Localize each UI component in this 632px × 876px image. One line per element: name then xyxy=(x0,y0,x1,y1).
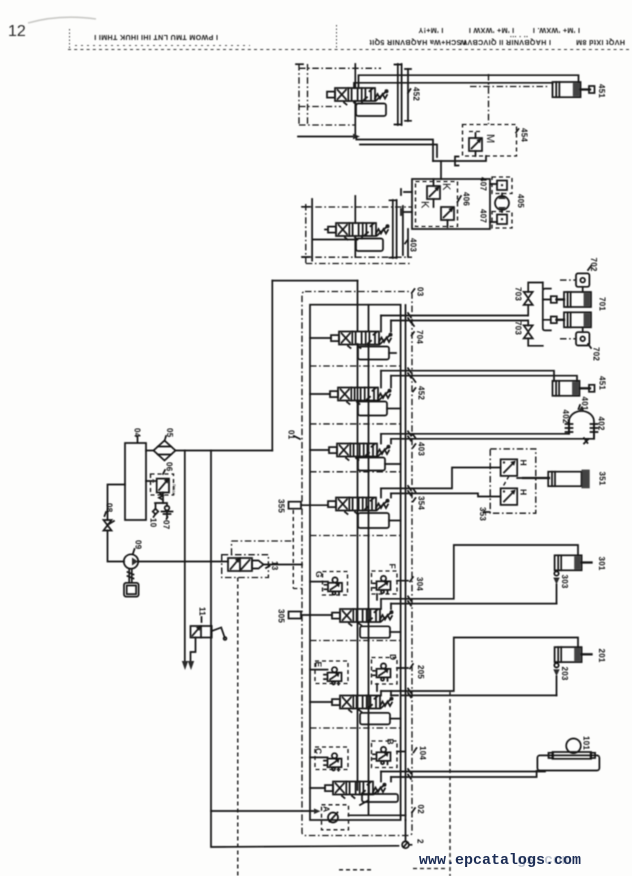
divider xyxy=(310,640,401,642)
label 402 left xyxy=(561,410,570,424)
divider xyxy=(310,365,401,367)
svg-text:303: 303 xyxy=(560,575,569,589)
wire center vertical 403 xyxy=(354,196,356,257)
tank block E/D xyxy=(360,713,401,725)
svg-text:10: 10 xyxy=(149,518,158,528)
label 101 xyxy=(582,736,591,750)
label 03 xyxy=(412,287,425,297)
tank arrows xyxy=(182,661,194,670)
svg-text:402: 402 xyxy=(597,417,606,431)
pilot box A xyxy=(322,805,349,830)
svg-text:304: 304 xyxy=(415,577,424,591)
label 12 xyxy=(416,839,425,844)
wire supply riser xyxy=(271,281,273,451)
label 304 xyxy=(410,577,424,591)
label Pmax xyxy=(172,484,177,496)
pilot box F xyxy=(372,571,409,600)
dash-dot enclosure 452 xyxy=(296,64,381,126)
wire center vertical 452 xyxy=(354,64,356,137)
svg-text:I SCH+Wa HAQBVNIR 5QIt: I SCH+Wa HAQBVNIR 5QIt xyxy=(369,38,466,47)
svg-text:I 'M+ 'WXW. I I 'M+ 'WX: I 'M+ 'WXW. I I 'M+ 'WXW I I 'M+!Y xyxy=(418,26,580,35)
wire outputs to cylinder 201 xyxy=(381,638,578,696)
block 454 xyxy=(463,125,517,157)
label 702 upper xyxy=(588,258,598,272)
filter 05 xyxy=(154,441,176,461)
label H lower xyxy=(519,489,529,495)
shutoff valve 08 xyxy=(104,485,126,562)
svg-text:12: 12 xyxy=(8,23,26,40)
label 04 xyxy=(133,428,142,442)
breather 07 xyxy=(162,506,173,518)
label 02 xyxy=(412,805,425,815)
svg-text:101: 101 xyxy=(582,736,591,750)
wire output to motor 101 xyxy=(381,771,545,782)
dash-dot enclosure 403 xyxy=(302,204,412,263)
svg-text:K: K xyxy=(440,183,452,191)
bottom dashes xyxy=(339,869,447,870)
svg-text:702: 702 xyxy=(592,347,601,361)
check boxes 407 xyxy=(490,177,512,228)
label C xyxy=(314,748,324,754)
label 06 xyxy=(163,462,174,474)
valve 354 xyxy=(328,498,389,515)
wire return riser B xyxy=(211,451,399,848)
label 303 xyxy=(560,575,569,589)
tank block under valve 403 xyxy=(356,236,383,251)
svg-text:F: F xyxy=(388,564,398,569)
svg-text:B: B xyxy=(386,739,396,745)
wire lower feeds xyxy=(272,264,412,281)
label 05 xyxy=(165,428,175,441)
valve 403 (bank) xyxy=(329,444,390,461)
svg-text:K: K xyxy=(419,201,431,209)
label 454 xyxy=(516,128,529,142)
wire pump output xyxy=(138,561,228,563)
label 203 xyxy=(560,667,569,681)
gauge port 12 xyxy=(402,820,413,848)
label 701 xyxy=(598,297,607,311)
valve 452 (bank) xyxy=(330,388,391,405)
tank block 403 xyxy=(358,458,401,471)
svg-text:www.epcatalogs.com: www.epcatalogs.com xyxy=(419,852,581,869)
svg-text:E: E xyxy=(314,662,324,668)
dashed drain from valve 13 xyxy=(237,578,239,876)
pilot box C xyxy=(310,747,348,771)
svg-text:405: 405 xyxy=(516,194,525,208)
svg-text:06: 06 xyxy=(165,462,174,472)
label 405 xyxy=(516,194,525,208)
dashed boundary lower right xyxy=(449,692,451,876)
pilot box D xyxy=(372,658,409,692)
wire return riser A xyxy=(184,451,186,662)
label M xyxy=(484,134,496,143)
label 702 lower xyxy=(588,344,601,361)
valve 452 (top) xyxy=(327,88,388,105)
wire return into bank bottom xyxy=(211,808,321,814)
label H upper xyxy=(519,460,529,466)
svg-text:H: H xyxy=(519,489,529,495)
svg-text:Pmax: Pmax xyxy=(172,484,177,496)
svg-text:13: 13 xyxy=(270,561,279,571)
valve 704 xyxy=(331,332,392,349)
valve E/D spool xyxy=(332,696,393,713)
label 07 xyxy=(162,517,171,530)
check valve 703 lower xyxy=(524,321,543,346)
svg-text:452: 452 xyxy=(412,87,421,101)
valve 11 xyxy=(191,626,227,640)
svg-text:H: H xyxy=(519,460,529,466)
drain 10 xyxy=(153,503,167,514)
label 08 xyxy=(105,503,114,516)
label 201 xyxy=(597,649,606,663)
bank outer dash-dot boundary xyxy=(302,292,412,836)
cylinder 451 (mid) xyxy=(553,381,595,396)
svg-text:354: 354 xyxy=(417,496,426,510)
label 351 xyxy=(598,472,607,486)
divider xyxy=(310,727,401,729)
wire 704 left port xyxy=(310,337,331,339)
label 13 xyxy=(266,561,279,571)
bank inner housing xyxy=(310,305,406,820)
svg-text:403: 403 xyxy=(417,442,426,456)
wire 354 outputs to block 353 xyxy=(381,468,490,498)
block 406 xyxy=(412,179,490,229)
boundary tick marks xyxy=(408,313,411,779)
svg-text:451: 451 xyxy=(598,376,607,390)
wire pressure gallery xyxy=(358,281,369,815)
divider xyxy=(310,423,401,425)
label 406 xyxy=(458,192,471,206)
cylinder 201 xyxy=(555,647,592,662)
svg-text:07: 07 xyxy=(162,520,171,530)
svg-text:HVQt IXtd 8M: HVQt IXtd 8M xyxy=(576,38,625,47)
cylinder 701 lower xyxy=(551,312,591,327)
label K upper xyxy=(440,183,452,191)
label 301 xyxy=(597,557,606,571)
svg-text:351: 351 xyxy=(598,472,607,486)
svg-text:704: 704 xyxy=(415,330,424,344)
port 305 xyxy=(289,612,333,619)
label 11 xyxy=(198,607,207,622)
svg-text:703: 703 xyxy=(514,321,523,335)
svg-text:403: 403 xyxy=(409,238,418,252)
wire 403 left port xyxy=(310,449,329,451)
label 205 xyxy=(410,664,425,679)
svg-text:C: C xyxy=(314,748,324,754)
wire 704 outputs xyxy=(381,316,528,332)
label 703 lower xyxy=(514,321,523,335)
tank block 305 xyxy=(360,626,401,638)
label 104 xyxy=(414,746,428,760)
svg-text:G: G xyxy=(314,571,324,578)
wire verticals right of 452 xyxy=(395,64,412,125)
header title block (rotated 180, scanned) xyxy=(68,49,630,51)
check valve 203 xyxy=(553,662,559,695)
label 402 right xyxy=(597,417,606,431)
label 10 xyxy=(149,515,158,528)
cylinder 351 xyxy=(523,470,590,489)
valve 403 (top) xyxy=(328,223,389,240)
tank block C/B xyxy=(360,794,398,805)
wire 452 left port xyxy=(310,393,330,395)
svg-text:201: 201 xyxy=(597,649,606,663)
label 452 xyxy=(413,379,426,401)
svg-text:104: 104 xyxy=(418,746,427,760)
block 353 xyxy=(490,449,536,513)
label 305 xyxy=(277,609,286,623)
label D xyxy=(388,654,398,660)
svg-text:407: 407 xyxy=(479,177,488,191)
svg-text:02: 02 xyxy=(416,805,425,815)
pump 09 xyxy=(124,554,138,568)
cylinder 301 xyxy=(555,555,592,570)
wire double line to block 454 xyxy=(356,137,486,166)
wire 305 outputs to cylinder 301 xyxy=(381,545,578,609)
pilot box G xyxy=(310,572,348,596)
pump drive symbol xyxy=(124,569,139,597)
wire 452 outputs to cylinder 451 xyxy=(381,371,577,388)
divider xyxy=(310,535,401,537)
svg-text:701: 701 xyxy=(598,297,607,311)
cylinder 701 upper xyxy=(551,292,591,307)
wire filter to supply riser xyxy=(176,450,273,452)
port 702 lower xyxy=(560,328,589,346)
svg-text:401: 401 xyxy=(580,397,589,411)
svg-text:11: 11 xyxy=(198,607,207,616)
gauge A xyxy=(328,813,406,823)
svg-text:D: D xyxy=(388,654,398,660)
check valve 303 xyxy=(553,570,559,603)
wire 403 outputs to coupling xyxy=(381,422,594,444)
label 451 xyxy=(597,84,606,98)
svg-text:I HAQBVNIR II QIVCBVW: I HAQBVNIR II QIVCBVW xyxy=(460,38,551,47)
valve 13 xyxy=(222,555,302,578)
label 353 xyxy=(478,507,490,521)
divider xyxy=(310,471,401,473)
svg-text:I PWOM TMU LNT IHI IHUK THMI I: I PWOM TMU LNT IHI IHUK THMI I xyxy=(94,33,218,42)
wire to cylinder 451 xyxy=(354,74,579,124)
label 01 xyxy=(287,430,301,440)
tank block 704 xyxy=(358,347,396,360)
wire arrow feed xyxy=(298,134,360,140)
port 702 upper xyxy=(560,273,589,292)
label 704 xyxy=(412,323,425,345)
svg-text:406: 406 xyxy=(462,192,471,206)
svg-text:.. . ...: .. . ... xyxy=(510,34,528,43)
dashed drain line 355 xyxy=(293,510,302,589)
wire valve 11 drain xyxy=(191,638,196,662)
svg-text:305: 305 xyxy=(277,609,286,623)
cylinder 451 (top) xyxy=(553,82,595,97)
svg-text:452: 452 xyxy=(417,386,426,400)
svg-text:407: 407 xyxy=(479,209,488,223)
dash-dot pilot line 13 xyxy=(232,541,294,555)
label E xyxy=(314,662,324,668)
label G xyxy=(314,571,324,578)
wire E left port xyxy=(310,701,332,703)
pilot box B xyxy=(372,741,406,768)
svg-text:703: 703 xyxy=(514,287,523,301)
check valve 703 upper xyxy=(524,283,543,316)
label 09 xyxy=(133,540,143,554)
svg-text:353: 353 xyxy=(478,507,487,521)
label K lower xyxy=(419,201,431,209)
tank block under valve 452 xyxy=(356,101,386,116)
svg-text:203: 203 xyxy=(560,667,569,681)
wire C left port xyxy=(310,787,325,789)
wire 403 left port xyxy=(312,199,356,261)
svg-text:301: 301 xyxy=(597,557,606,571)
label 703 upper xyxy=(514,287,523,301)
tank block 354 xyxy=(358,513,401,528)
coupling 401/402 xyxy=(566,406,598,444)
valve C/B spool xyxy=(325,782,386,799)
tank block 452 xyxy=(358,402,401,416)
valve 305 spool xyxy=(332,609,393,626)
svg-text:451: 451 xyxy=(597,84,606,98)
wire 454 to 406 xyxy=(440,161,442,179)
motor 101 xyxy=(537,739,599,771)
manifold bracket 701 xyxy=(543,283,551,331)
label 407 lower xyxy=(479,209,488,223)
svg-text:205: 205 xyxy=(416,665,425,679)
label 451 xyxy=(598,376,607,390)
motor 405 xyxy=(495,194,509,213)
label 355 xyxy=(277,499,286,513)
label 452 xyxy=(408,87,421,101)
scan artifact swoosh xyxy=(28,17,96,23)
svg-text:402: 402 xyxy=(561,410,570,424)
label B xyxy=(386,739,396,745)
svg-text:454: 454 xyxy=(520,128,529,142)
label 354 xyxy=(413,489,426,511)
label 401 xyxy=(579,397,590,411)
pilot box E xyxy=(310,661,348,685)
svg-text:702: 702 xyxy=(589,258,598,272)
label 403 xyxy=(405,238,418,252)
wire stubs left of 406 xyxy=(401,189,412,215)
wire tank to filter xyxy=(146,450,154,452)
label 407 upper xyxy=(479,177,488,191)
svg-text:03: 03 xyxy=(416,287,425,297)
svg-text:2: 2 xyxy=(416,839,425,844)
label F xyxy=(388,564,398,569)
relief block 06 xyxy=(146,474,174,503)
svg-text:M: M xyxy=(484,134,496,143)
reservoir 04 xyxy=(125,443,146,520)
label 403 xyxy=(413,435,426,457)
svg-text:355: 355 xyxy=(277,499,286,513)
wire verticals right of 403 xyxy=(390,200,409,258)
svg-text:A: A xyxy=(322,806,332,812)
svg-text:01: 01 xyxy=(287,430,296,440)
port 355 xyxy=(289,502,329,509)
label A xyxy=(322,806,332,812)
